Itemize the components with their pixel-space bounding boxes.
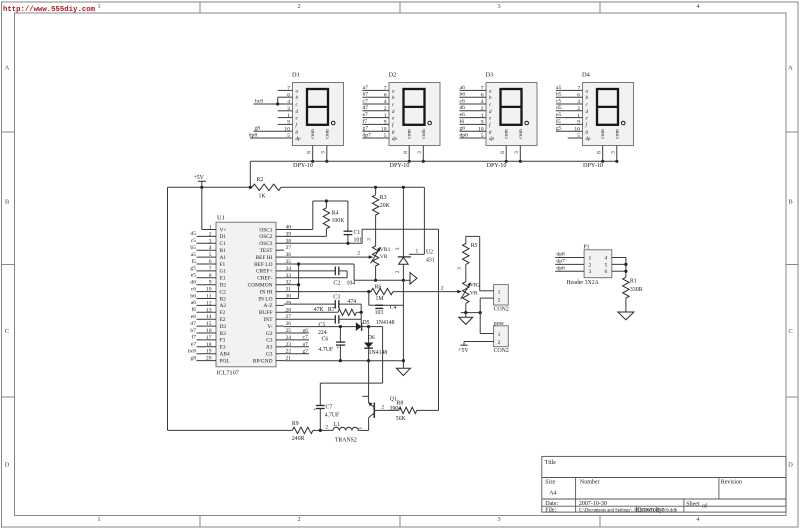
svg-text:3: 3 bbox=[497, 3, 500, 10]
wire CON2 upper pin1 to R5 rail bbox=[480, 290, 494, 292]
svg-text:1: 1 bbox=[416, 249, 419, 255]
svg-text:b5: b5 bbox=[190, 245, 196, 251]
wire D5 node loop to C7 bbox=[369, 326, 383, 328]
display D1 7-segment digit bbox=[307, 89, 328, 125]
svg-text:dp6: dp6 bbox=[556, 265, 565, 271]
transistor Q1 3904 bbox=[368, 361, 370, 403]
svg-text:e5: e5 bbox=[191, 273, 196, 279]
svg-text:1: 1 bbox=[97, 516, 100, 523]
op-amp U2 431 regulator symbol bbox=[398, 256, 411, 258]
svg-text:Revision: Revision bbox=[721, 480, 742, 486]
capacitor C4 103 branch bbox=[368, 292, 370, 306]
svg-text:a6: a6 bbox=[191, 300, 196, 306]
svg-text:B: B bbox=[788, 199, 793, 206]
wire VR1 bottom bbox=[375, 266, 377, 280]
svg-text:IN HI: IN HI bbox=[260, 289, 273, 295]
svg-text:c7: c7 bbox=[363, 98, 368, 104]
svg-text:R4: R4 bbox=[332, 211, 339, 217]
wire net a6 bbox=[459, 89, 486, 91]
wire VR2 bottom to ground node bbox=[465, 304, 467, 313]
svg-text:D4: D4 bbox=[582, 72, 591, 79]
svg-text:bc8: bc8 bbox=[255, 98, 263, 104]
wire net bc8 to D1 pins 6 and 4 bbox=[254, 103, 293, 105]
display D3 7-segment digit bbox=[501, 89, 522, 125]
wire OSC1 pin 40 up bbox=[284, 229, 313, 231]
svg-text:8: 8 bbox=[306, 151, 312, 154]
vertical tie wire pins 35-32-30 bbox=[298, 264, 300, 299]
wire CON2 lower pin2 to +5V bbox=[464, 341, 494, 343]
svg-text:d6: d6 bbox=[190, 280, 196, 286]
display D1 DPY-10 box bbox=[293, 83, 344, 146]
wire Q1 base to R8 bbox=[374, 409, 398, 411]
svg-text:Sheet: Sheet bbox=[686, 502, 700, 508]
svg-text:VR: VR bbox=[380, 254, 388, 260]
svg-text:TRANS2: TRANS2 bbox=[335, 438, 357, 444]
svg-text:a6: a6 bbox=[460, 85, 465, 91]
svg-text:INT: INT bbox=[264, 317, 274, 323]
open triangle connector at U2 node bbox=[403, 279, 410, 281]
svg-text:POL: POL bbox=[220, 358, 230, 364]
svg-text:bc8: bc8 bbox=[188, 349, 196, 355]
svg-text:3: 3 bbox=[417, 151, 423, 154]
wire net a5 bbox=[556, 89, 583, 91]
svg-text:47K: 47K bbox=[314, 307, 325, 313]
svg-text:com: com bbox=[310, 129, 316, 139]
wire CREF- pin 33 loop bbox=[346, 271, 348, 278]
svg-text:f5: f5 bbox=[191, 258, 196, 265]
svg-text:b6: b6 bbox=[460, 92, 466, 98]
svg-text:d5: d5 bbox=[556, 105, 562, 111]
svg-text:REF LO: REF LO bbox=[254, 262, 273, 268]
U1 right net labels g6 c7 a7 g7 on pins 25-22 bbox=[284, 332, 309, 334]
svg-text:2: 2 bbox=[357, 251, 360, 257]
svg-text:240R: 240R bbox=[292, 436, 305, 442]
svg-text:D6: D6 bbox=[368, 335, 375, 341]
svg-text:c7: c7 bbox=[303, 335, 308, 341]
connector CON2 upper box bbox=[494, 285, 509, 305]
svg-text:3: 3 bbox=[395, 247, 401, 250]
display D3 DPY-10 box bbox=[486, 83, 537, 146]
title block outline bbox=[542, 456, 786, 512]
svg-text:G2: G2 bbox=[266, 331, 273, 337]
svg-text:http://www.555diy.com: http://www.555diy.com bbox=[3, 6, 96, 14]
svg-text:R3: R3 bbox=[380, 195, 387, 201]
svg-text:c5: c5 bbox=[191, 238, 196, 244]
svg-text:Size: Size bbox=[545, 480, 556, 486]
wire L1 to Q1 emitter bbox=[358, 429, 368, 431]
junction dot VR1 bottom node bbox=[374, 279, 377, 282]
integrator node vertical wire bbox=[360, 304, 362, 322]
svg-text:20K: 20K bbox=[380, 203, 391, 209]
svg-text:2007-10-30: 2007-10-30 bbox=[579, 501, 607, 507]
wire rail to U2 cathode bbox=[402, 187, 404, 257]
wire R4 to OSC2 pin 39 bbox=[325, 229, 327, 237]
svg-text:1M: 1M bbox=[376, 296, 384, 302]
wire COMMON pin 32 stub bbox=[284, 284, 299, 286]
junction dot R4 top bbox=[325, 199, 328, 202]
svg-text:File:: File: bbox=[545, 508, 556, 514]
junction dot integrator node bbox=[360, 311, 363, 314]
svg-text:CON2: CON2 bbox=[494, 307, 509, 313]
wire OSC3 jog up and long run to R8 bbox=[361, 229, 363, 243]
svg-text:3: 3 bbox=[366, 238, 372, 241]
svg-text:U1: U1 bbox=[217, 215, 225, 222]
svg-text:2: 2 bbox=[381, 405, 384, 411]
svg-text:2: 2 bbox=[297, 3, 300, 10]
display D3 decimal point bbox=[525, 121, 529, 125]
wire R6 to VR2 wiper bbox=[393, 291, 459, 293]
svg-text:U2: U2 bbox=[426, 250, 433, 256]
wire net dp7 bbox=[362, 137, 389, 139]
svg-text:g5: g5 bbox=[556, 126, 562, 132]
svg-text:A: A bbox=[788, 65, 793, 72]
svg-text:4.7UF: 4.7UF bbox=[319, 347, 334, 353]
svg-text:A2: A2 bbox=[220, 303, 227, 309]
junction dot D5 cathode node bbox=[367, 325, 370, 328]
svg-text:1N4148: 1N4148 bbox=[369, 350, 388, 356]
junction dots on tie wire bbox=[297, 262, 300, 265]
svg-text:1N4148: 1N4148 bbox=[376, 320, 395, 326]
resistor R9 240R bbox=[292, 427, 313, 433]
wire R1 to ground bbox=[625, 298, 627, 312]
svg-text:3: 3 bbox=[589, 269, 592, 275]
svg-text:a5: a5 bbox=[556, 85, 561, 91]
connector P1 Header 3X2A box bbox=[584, 250, 612, 278]
svg-text:DPY-10: DPY-10 bbox=[293, 162, 313, 169]
wire net e6 bbox=[459, 117, 486, 119]
wire net c5 bbox=[556, 103, 583, 105]
svg-text:R5: R5 bbox=[471, 243, 478, 249]
svg-text:3: 3 bbox=[456, 267, 462, 270]
trimmer VR1 bbox=[372, 246, 378, 266]
ground symbol at R1 bbox=[618, 312, 634, 320]
svg-text:ICL7107: ICL7107 bbox=[217, 370, 239, 377]
svg-text:431: 431 bbox=[426, 258, 435, 264]
svg-text:474: 474 bbox=[348, 299, 357, 305]
svg-text:C2: C2 bbox=[220, 289, 227, 295]
svg-text:b7: b7 bbox=[363, 92, 369, 98]
wire V- pin 26 row bbox=[284, 326, 356, 328]
wire net e7 bbox=[362, 117, 389, 119]
svg-text:P1: P1 bbox=[583, 245, 589, 251]
svg-text:d7: d7 bbox=[363, 105, 369, 111]
svg-text:com: com bbox=[407, 129, 413, 139]
svg-text:of: of bbox=[702, 502, 707, 509]
wire net b7 bbox=[362, 96, 389, 98]
svg-text:C2: C2 bbox=[334, 280, 341, 286]
svg-text:TEST: TEST bbox=[260, 248, 274, 254]
wire R5 to VR2 bbox=[465, 264, 467, 281]
svg-text:d6: d6 bbox=[460, 105, 466, 111]
svg-text:56K: 56K bbox=[396, 416, 407, 422]
svg-text:C4: C4 bbox=[390, 305, 397, 311]
wire REF LO pin 35 row bbox=[284, 263, 354, 265]
wire net d5 bbox=[556, 110, 583, 112]
svg-text:com: com bbox=[504, 129, 510, 139]
svg-text:g6: g6 bbox=[303, 328, 309, 334]
svg-text:330R: 330R bbox=[630, 287, 643, 293]
svg-text:3: 3 bbox=[497, 516, 500, 523]
wire net f7 bbox=[362, 123, 389, 125]
svg-text:B3: B3 bbox=[220, 331, 227, 337]
svg-text:b6: b6 bbox=[190, 293, 196, 299]
junction dot C1 bottom bbox=[346, 242, 349, 245]
svg-text:e6: e6 bbox=[191, 314, 196, 320]
svg-text:C3: C3 bbox=[266, 338, 273, 344]
junction dot C6 top bbox=[339, 325, 342, 328]
svg-text:E3: E3 bbox=[220, 345, 226, 351]
wire net d6 bbox=[459, 110, 486, 112]
svg-text:b5: b5 bbox=[556, 92, 562, 98]
svg-text:b7: b7 bbox=[190, 328, 196, 334]
svg-text:a7: a7 bbox=[363, 85, 368, 91]
resistor R2 bbox=[252, 184, 281, 190]
svg-text:com: com bbox=[324, 129, 330, 139]
svg-text:2: 2 bbox=[589, 262, 592, 268]
svg-text:3: 3 bbox=[611, 151, 617, 154]
resistor R6 1M bbox=[371, 288, 393, 294]
U2 anode wire bbox=[402, 264, 404, 280]
svg-text:R1: R1 bbox=[630, 279, 637, 285]
display D2 com wires to bus bbox=[408, 146, 410, 162]
svg-text:pow: pow bbox=[494, 321, 505, 327]
svg-text:f7: f7 bbox=[191, 334, 196, 341]
trimmer VR2 bbox=[463, 282, 469, 304]
svg-text:OSC1: OSC1 bbox=[259, 227, 272, 233]
svg-text:DPY-10: DPY-10 bbox=[390, 162, 410, 169]
svg-text:a7: a7 bbox=[303, 342, 308, 348]
svg-text:F3: F3 bbox=[220, 338, 226, 344]
wire net g5 bbox=[556, 130, 583, 132]
svg-text:2: 2 bbox=[498, 340, 501, 346]
svg-text:dp: dp bbox=[296, 137, 302, 142]
svg-text:E2: E2 bbox=[220, 317, 226, 323]
svg-text:com: com bbox=[600, 129, 606, 139]
svg-text:1: 1 bbox=[589, 256, 592, 262]
capacitor C7 4.7UF bbox=[319, 383, 321, 405]
wire net b5 bbox=[556, 96, 583, 98]
svg-text:f7: f7 bbox=[363, 118, 368, 125]
svg-text:101: 101 bbox=[354, 237, 363, 243]
svg-text:DPY-10: DPY-10 bbox=[583, 162, 603, 169]
wire CON2 upper pin2 to ground node bbox=[480, 297, 493, 299]
svg-text:B2: B2 bbox=[220, 296, 227, 302]
svg-text:Title: Title bbox=[545, 460, 556, 466]
junction dot C7 bottom bbox=[319, 429, 322, 432]
svg-text:D1: D1 bbox=[292, 72, 300, 79]
ground node wire bbox=[461, 312, 480, 314]
svg-text:DPY-10: DPY-10 bbox=[487, 162, 507, 169]
ground symbol below VR2 bbox=[465, 313, 467, 318]
svg-text:A-Z: A-Z bbox=[264, 303, 273, 309]
display D2 DPY-10 box bbox=[389, 83, 440, 146]
svg-text:8: 8 bbox=[596, 151, 602, 154]
svg-text:3: 3 bbox=[514, 151, 520, 154]
svg-text:R7: R7 bbox=[328, 307, 335, 313]
svg-text:1: 1 bbox=[498, 290, 501, 296]
op-amp U1 ICL7107 body bbox=[216, 222, 276, 367]
P1 left wires dp8 dp7 dp6 bbox=[555, 257, 584, 259]
svg-text:2: 2 bbox=[395, 270, 401, 273]
wire REF HI pin 36 to VR1 wiper bbox=[284, 256, 370, 258]
svg-text:D: D bbox=[5, 462, 10, 469]
P1 right wires to R1 bbox=[612, 257, 626, 259]
svg-text:dp: dp bbox=[586, 137, 592, 142]
svg-text:Number: Number bbox=[580, 480, 600, 486]
wire BP/GND pin 21 row bbox=[284, 360, 403, 362]
svg-text:CON2: CON2 bbox=[494, 348, 509, 354]
svg-text:OSC3: OSC3 bbox=[259, 241, 272, 247]
svg-text:g6: g6 bbox=[460, 126, 466, 132]
bottom loop wire bbox=[168, 429, 293, 431]
svg-text:f6: f6 bbox=[460, 118, 465, 125]
svg-text:+5V: +5V bbox=[194, 175, 205, 181]
display D4 decimal point bbox=[621, 121, 625, 125]
wire net d7 bbox=[362, 110, 389, 112]
display D4 com wires to bus bbox=[602, 146, 604, 162]
svg-text:D1: D1 bbox=[220, 234, 227, 240]
svg-text:100K: 100K bbox=[332, 218, 346, 224]
svg-text:e6: e6 bbox=[460, 112, 465, 118]
inductor L1 TRANS2 bbox=[333, 427, 339, 430]
svg-text:A: A bbox=[5, 65, 10, 72]
wire left loop down bbox=[167, 187, 169, 430]
svg-text:8: 8 bbox=[500, 151, 506, 154]
svg-text:L1: L1 bbox=[334, 422, 341, 428]
capacitor C5 224 on INT pin 27 bbox=[284, 318, 335, 320]
resistor R8 56K bbox=[399, 407, 417, 413]
svg-text:29: 29 bbox=[286, 300, 292, 306]
svg-text:37: 37 bbox=[286, 245, 292, 251]
wire ground node down to CON2 lower pin1 bbox=[479, 313, 481, 334]
U2 pin 1 wire to rail branch bbox=[409, 253, 424, 255]
svg-text:D3: D3 bbox=[486, 72, 494, 79]
svg-text:5: 5 bbox=[605, 262, 608, 268]
wire net c7 bbox=[362, 103, 389, 105]
svg-text:OSC2: OSC2 bbox=[259, 234, 272, 240]
svg-text:g8: g8 bbox=[190, 355, 196, 361]
wire U2 anode node down to ground row bbox=[402, 280, 404, 360]
diode D6 1N4148 bbox=[368, 327, 370, 343]
svg-text:com: com bbox=[518, 129, 524, 139]
U1 right pin stubs bbox=[276, 229, 284, 231]
svg-text:g7: g7 bbox=[303, 349, 309, 355]
wire R3 to VR1 bbox=[375, 215, 377, 246]
svg-text:D2: D2 bbox=[389, 72, 397, 79]
svg-text:e7: e7 bbox=[363, 112, 368, 118]
svg-text:R2: R2 bbox=[257, 177, 264, 183]
svg-text:V-: V- bbox=[267, 324, 272, 330]
svg-text:G1: G1 bbox=[220, 269, 227, 275]
capacitor C3 474 on A-Z pin 29 bbox=[284, 303, 335, 305]
display D1 decimal point bbox=[331, 121, 335, 125]
wire net f5 bbox=[556, 123, 583, 125]
svg-text:2: 2 bbox=[325, 425, 328, 431]
svg-text:E1: E1 bbox=[220, 276, 226, 282]
svg-text:e5: e5 bbox=[556, 112, 561, 118]
capacitor C1 101 bbox=[347, 201, 349, 231]
svg-text:g5: g5 bbox=[190, 266, 196, 272]
svg-text:1: 1 bbox=[97, 3, 100, 10]
bus junction dots under display D2 bbox=[408, 160, 411, 163]
svg-text:f6: f6 bbox=[191, 306, 196, 313]
svg-text:dp8: dp8 bbox=[556, 252, 565, 258]
svg-text:com: com bbox=[614, 129, 620, 139]
resistor R4 100K bbox=[325, 201, 327, 208]
svg-text:C1: C1 bbox=[354, 230, 361, 236]
wire net e5 bbox=[556, 117, 583, 119]
svg-text:CREF-: CREF- bbox=[257, 276, 272, 282]
wire IN HI pin 31 row bbox=[284, 291, 371, 293]
svg-text:1: 1 bbox=[498, 332, 501, 338]
display D4 7-segment digit bbox=[597, 89, 618, 125]
svg-text:103: 103 bbox=[375, 310, 384, 316]
svg-text:B1: B1 bbox=[220, 248, 227, 254]
display D2 7-segment digit bbox=[404, 89, 425, 125]
svg-text:1K: 1K bbox=[259, 193, 267, 199]
wire R9 to L1 bbox=[313, 429, 333, 431]
bus junction dots under display D1 bbox=[311, 160, 314, 163]
svg-text:dp8: dp8 bbox=[249, 132, 258, 138]
wire net c6 bbox=[459, 103, 486, 105]
svg-text:REF HI: REF HI bbox=[256, 255, 273, 261]
wire net g7 bbox=[362, 130, 389, 132]
svg-text:C: C bbox=[788, 328, 792, 335]
svg-text:C: C bbox=[5, 328, 9, 335]
wire REF LO over to U2 anode bbox=[353, 264, 355, 280]
svg-text:c5: c5 bbox=[556, 98, 561, 104]
junction dot R6 left bbox=[367, 290, 370, 293]
svg-text:g7: g7 bbox=[363, 126, 369, 132]
svg-text:R6: R6 bbox=[375, 284, 382, 290]
svg-text:6: 6 bbox=[605, 269, 608, 275]
svg-text:2: 2 bbox=[498, 297, 501, 303]
svg-text:4.7UF: 4.7UF bbox=[325, 413, 340, 419]
svg-text:VR1: VR1 bbox=[380, 247, 391, 253]
svg-text:COMMON: COMMON bbox=[248, 283, 273, 289]
svg-text:F2: F2 bbox=[220, 310, 226, 316]
wire net dp6 bbox=[459, 137, 486, 139]
svg-text:1: 1 bbox=[358, 426, 364, 429]
svg-text:V+: V+ bbox=[220, 227, 227, 233]
wire net dp8 to D1 pin 5 bbox=[250, 137, 293, 139]
svg-text:4: 4 bbox=[605, 256, 608, 262]
svg-text:a5: a5 bbox=[191, 252, 196, 258]
svg-text:Drawn By:: Drawn By: bbox=[638, 508, 665, 514]
frame zone ticks bbox=[199, 2, 201, 13]
wire net f6 bbox=[459, 123, 486, 125]
svg-text:c6: c6 bbox=[460, 98, 465, 104]
svg-text:C5: C5 bbox=[319, 323, 326, 329]
svg-text:A3: A3 bbox=[266, 345, 273, 351]
svg-text:CREF+: CREF+ bbox=[256, 269, 273, 275]
+5V rail wire bbox=[168, 186, 253, 188]
svg-text:C6: C6 bbox=[322, 337, 329, 343]
svg-text:f5: f5 bbox=[556, 118, 561, 125]
display D4 DPY-10 box bbox=[583, 83, 634, 146]
wire bus riser to rail bbox=[249, 161, 251, 187]
display D1 com wires to bus bbox=[312, 146, 314, 162]
display dp stub bbox=[568, 137, 583, 139]
wire net b6 bbox=[459, 96, 486, 98]
svg-text:IN LO: IN LO bbox=[258, 296, 272, 302]
svg-text:2: 2 bbox=[297, 516, 300, 523]
svg-text:e7: e7 bbox=[191, 342, 196, 348]
wire net a7 bbox=[362, 89, 389, 91]
svg-text:A1: A1 bbox=[220, 255, 227, 261]
svg-text:A4: A4 bbox=[549, 491, 556, 497]
common anode bus wire bbox=[250, 160, 617, 162]
